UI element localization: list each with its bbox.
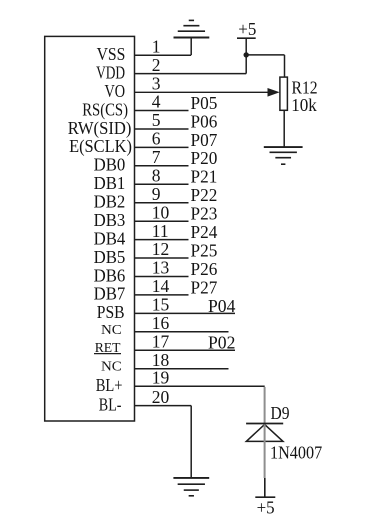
svg-text:NC: NC [101, 360, 122, 375]
diode D9 triangle [246, 424, 283, 441]
diode D9 cathode bar [246, 423, 283, 425]
svg-text:2: 2 [152, 55, 161, 75]
wire pin 7 stub [135, 165, 189, 167]
+5 supply (VDD) bar [237, 37, 256, 39]
svg-text:+5: +5 [238, 19, 256, 39]
ground (pin 20 BL-) [173, 477, 209, 479]
svg-text:10: 10 [152, 202, 170, 222]
wire pin 8 stub [135, 183, 189, 185]
wire R12 bottom to ground [283, 110, 285, 147]
wire pin 16 stub [135, 331, 229, 333]
svg-text:DB7: DB7 [94, 284, 126, 304]
junction dot node VDD [244, 52, 249, 57]
svg-text:DB5: DB5 [94, 247, 126, 267]
svg-text:P21: P21 [191, 167, 218, 187]
wire pin 15 stub [135, 312, 236, 314]
wire pin 14 stub [135, 294, 189, 296]
resistor (pot) R12 body [280, 77, 288, 110]
svg-text:P20: P20 [191, 148, 218, 168]
svg-text:DB2: DB2 [94, 192, 126, 212]
RET underline (active low) [94, 353, 121, 355]
wire pin 3 VO to R12 wiper [135, 91, 270, 93]
wire +5 down to junction [245, 38, 247, 55]
svg-text:7: 7 [152, 147, 161, 167]
svg-text:VDD: VDD [96, 62, 125, 82]
wire pin 20 stub [135, 405, 192, 407]
svg-text:1: 1 [152, 36, 161, 56]
wire pin 5 stub [135, 128, 189, 130]
svg-text:E(SCLK): E(SCLK) [69, 136, 132, 156]
svg-text:8: 8 [152, 166, 161, 186]
svg-text:DB6: DB6 [94, 265, 126, 285]
svg-text:20: 20 [152, 387, 170, 407]
ground (R12 bottom) [264, 146, 303, 148]
svg-text:9: 9 [152, 184, 161, 204]
wire pin 2 stub [135, 73, 247, 75]
svg-text:D9: D9 [271, 403, 290, 423]
svg-text:3: 3 [152, 73, 161, 93]
LCD module connector box U1 [45, 36, 135, 421]
svg-text:P05: P05 [191, 93, 218, 113]
+5 supply (backlight) bar [255, 496, 275, 498]
svg-text:RW(SID): RW(SID) [68, 118, 132, 138]
svg-text:DB3: DB3 [94, 210, 126, 230]
svg-text:BL-: BL- [99, 394, 122, 414]
svg-text:DB1: DB1 [94, 173, 126, 193]
svg-text:BL+: BL+ [96, 375, 123, 395]
svg-text:16: 16 [152, 313, 170, 333]
wire pin20 down to ground [190, 406, 192, 478]
wiper arrow into R12 [268, 88, 280, 97]
svg-text:P26: P26 [191, 259, 218, 279]
wire pin 17 stub [135, 349, 236, 351]
svg-text:10k: 10k [291, 95, 317, 115]
wire junction down to pin 2 [245, 55, 247, 74]
svg-text:13: 13 [152, 258, 170, 278]
svg-text:15: 15 [152, 295, 170, 315]
svg-text:VSS: VSS [97, 44, 126, 64]
wire pin19 down to D9 (gray) [264, 387, 266, 424]
svg-text:PSB: PSB [97, 302, 125, 322]
wire pin 9 stub [135, 202, 189, 204]
svg-text:11: 11 [152, 221, 169, 241]
svg-text:P25: P25 [191, 240, 218, 260]
wire pin 4 stub [135, 110, 189, 112]
svg-text:RS(CS): RS(CS) [82, 99, 128, 119]
svg-text:12: 12 [152, 239, 170, 259]
wire pin 13 stub [135, 276, 189, 278]
svg-text:19: 19 [152, 368, 170, 388]
wire pin 6 stub [135, 146, 189, 148]
svg-text:VO: VO [105, 81, 126, 101]
ground (pin 1 VSS), inverted [174, 37, 210, 39]
svg-text:P06: P06 [191, 111, 218, 131]
svg-text:5: 5 [152, 110, 161, 130]
svg-text:P02: P02 [208, 333, 235, 353]
svg-text:P23: P23 [191, 204, 218, 224]
wire pin 10 stub [135, 220, 189, 222]
svg-text:1N4007: 1N4007 [270, 442, 322, 462]
svg-text:P04: P04 [208, 296, 236, 316]
wire pin1 up to ground [190, 37, 192, 55]
svg-text:P24: P24 [191, 222, 218, 242]
wire D9 anode down (gray) [264, 424, 266, 478]
svg-text:6: 6 [152, 129, 161, 149]
svg-text:4: 4 [152, 92, 161, 112]
svg-text:NC: NC [101, 323, 122, 338]
svg-text:P07: P07 [191, 130, 218, 150]
svg-text:17: 17 [152, 331, 170, 351]
wire pin 18 stub [135, 368, 229, 370]
wire pin 12 stub [135, 257, 189, 259]
svg-text:14: 14 [152, 276, 170, 296]
svg-text:DB4: DB4 [94, 228, 126, 248]
wire pin 11 stub [135, 239, 189, 241]
svg-text:P22: P22 [191, 185, 218, 205]
svg-text:DB0: DB0 [94, 155, 126, 175]
wire pin 19 stub [135, 385, 265, 387]
svg-text:+5: +5 [257, 498, 275, 518]
wire to +5 bottom [264, 478, 266, 497]
wire junction right to R12 top [246, 54, 284, 56]
wire pin 1 stub [135, 54, 192, 56]
svg-text:P27: P27 [191, 277, 218, 297]
